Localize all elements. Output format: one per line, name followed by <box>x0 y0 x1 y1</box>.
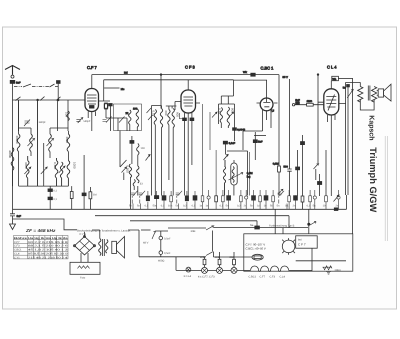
coil L5 <box>55 158 58 186</box>
wire tube U1 top cap <box>91 75 93 89</box>
capacitor cluster mid <box>203 104 250 209</box>
svg-text:Steckerbelegung für Tonabnehme: Steckerbelegung für Tonabnehmer u. Lauts… <box>77 229 131 232</box>
BOTTOM <box>14 209 353 279</box>
svg-text:C.L4: C.L4 <box>14 253 20 256</box>
tube U1 C.F7 <box>85 89 99 112</box>
svg-text:C.F7: C.F7 <box>260 275 266 278</box>
tube U2 base bracket <box>179 113 184 119</box>
svg-text:3600: 3600 <box>24 162 28 169</box>
svg-text:C L 4: C L 4 <box>327 64 337 69</box>
svg-text:90 2,2 6 215 95 3 8: 90 2,2 6 215 95 3 8 <box>28 241 69 244</box>
svg-text:10n: 10n <box>168 205 173 208</box>
svg-text:45 1,8 2 105 40 1 3: 45 1,8 2 105 40 1 3 <box>28 249 69 252</box>
wire mains row <box>168 227 206 229</box>
wire <box>360 100 374 111</box>
svg-text:4 x C,F7, C.F3: 4 x C,F7, C.F3 <box>198 275 215 278</box>
svg-text:ZF = 468 kHz: ZF = 468 kHz <box>25 228 57 233</box>
svg-text:log: log <box>247 176 251 179</box>
svg-text:0,30: 0,30 <box>217 108 221 114</box>
ground <box>10 224 16 230</box>
wire tube U3 top <box>221 80 266 98</box>
motor box <box>70 262 100 274</box>
bus y219 left <box>13 219 78 230</box>
resistor 0,3M <box>278 166 281 172</box>
wire dash-dot top <box>14 86 58 88</box>
bracket block x110-127 <box>106 118 127 131</box>
switch <box>122 167 127 173</box>
wire <box>71 186 73 209</box>
switch S2 <box>50 84 55 87</box>
wire grid bus yB <box>104 79 234 81</box>
tube U1 pins down <box>88 112 95 132</box>
antenna terminal <box>11 75 14 78</box>
IF transformer T1 bracket <box>19 100 69 134</box>
capacitor 50uF on bus <box>251 73 255 76</box>
svg-text:Md: Md <box>124 71 128 74</box>
svg-text:0,1: 0,1 <box>257 205 261 208</box>
svg-text:C.BC1: C.BC1 <box>249 275 257 278</box>
wire x318 <box>317 75 319 163</box>
svg-text:0,5nF: 0,5nF <box>164 237 171 240</box>
svg-text:0,1: 0,1 <box>145 205 149 208</box>
resistor to ground right <box>323 266 333 274</box>
wire <box>377 91 379 96</box>
wires T4 <box>221 96 234 141</box>
tone coil block <box>130 141 134 144</box>
wire <box>347 87 349 195</box>
wire <box>84 232 86 237</box>
svg-text:bei: bei <box>298 239 302 242</box>
svg-text:C.Y1: C.Y1 <box>14 256 20 259</box>
svg-text:100: 100 <box>133 108 138 111</box>
svg-text:Röhre: Röhre <box>14 237 28 240</box>
svg-text:C.L4: C.L4 <box>280 275 286 278</box>
capacitor blob <box>296 167 300 170</box>
resistor diag <box>147 108 153 120</box>
heater humps <box>251 266 289 271</box>
valve table <box>14 236 69 259</box>
coil L1c <box>49 134 52 152</box>
MIDFIELD <box>8 74 353 234</box>
tube U4 C.L4 <box>324 89 339 115</box>
capacitor 0,0048 <box>233 128 237 131</box>
svg-text:88 2,1 5 210 90 2 6: 88 2,1 5 210 90 2 6 <box>28 245 69 248</box>
wire grid row y=100 <box>13 99 86 101</box>
pot arrow <box>334 195 340 202</box>
switch <box>224 144 248 196</box>
wire <box>57 100 59 131</box>
switch S4 <box>40 97 45 101</box>
capacitor 5nF a <box>159 236 163 240</box>
svg-text:5nF: 5nF <box>258 141 263 144</box>
volume pot <box>223 160 225 196</box>
coil L6 <box>60 162 63 186</box>
vertical <box>212 231 214 252</box>
osc coil a <box>129 110 131 124</box>
coil L8 <box>67 111 70 121</box>
bus y215.7 <box>95 215 289 217</box>
svg-text:215 46 21 218 50 2 4: 215 46 21 218 50 2 4 <box>28 256 68 259</box>
switch mains a <box>206 226 214 230</box>
svg-text:C.F7: C.F7 <box>14 241 20 244</box>
output transformer T-out <box>358 87 363 103</box>
wire tube U2 top <box>187 80 189 90</box>
svg-text:Ua Ug Ik Ua Ug Ik 2a: Ua Ug Ik Ua Ug Ik 2a <box>28 237 68 240</box>
tube U3 pins <box>263 110 272 131</box>
svg-text:0,1: 0,1 <box>53 190 57 193</box>
wire plate to transformer <box>339 82 361 195</box>
coil <box>220 108 222 123</box>
svg-text:40Ω: 40Ω <box>200 256 205 259</box>
lamp 2 <box>217 267 223 273</box>
svg-text:3 C.L4: 3 C.L4 <box>184 275 192 278</box>
trimmer 140pF b <box>76 118 82 124</box>
main bus y209 <box>13 208 347 210</box>
switch gamma <box>146 155 151 161</box>
tube U3 C.BC1 <box>260 98 273 111</box>
wire <box>49 186 51 209</box>
capacitor 0,1uF <box>223 141 227 144</box>
svg-text:600: 600 <box>175 112 179 117</box>
switch S3 <box>16 97 21 101</box>
extra speaker <box>112 241 117 253</box>
wires below upper coils <box>19 152 69 161</box>
wire tube stubs <box>175 102 324 111</box>
svg-text:40Ω: 40Ω <box>215 256 220 259</box>
cluster labels <box>129 205 203 208</box>
inner page edge lines right <box>384 136 386 241</box>
svg-text:C.BC1: C.BC1 <box>14 249 22 252</box>
capacitor blob <box>301 142 305 145</box>
svg-text:C.F3: C.F3 <box>270 275 276 278</box>
svg-text:C F 7: C F 7 <box>298 243 306 247</box>
svg-text:0,2: 0,2 <box>237 205 241 208</box>
wire <box>295 104 324 106</box>
antenna <box>5 66 20 75</box>
capacitor 5nF b <box>159 251 163 255</box>
switch S5 <box>56 97 61 101</box>
svg-text:Funkentstörung Typ B: Funkentstörung Typ B <box>269 224 295 227</box>
switch block wires <box>128 230 152 257</box>
svg-text:500: 500 <box>284 166 289 169</box>
svg-text:0,1uF: 0,1uF <box>229 142 236 145</box>
trimmer T4 left <box>212 112 217 118</box>
trimmer diag <box>347 89 353 98</box>
coil pair 2 <box>168 110 170 125</box>
svg-text:C.BC1: 40–50 V: C.BC1: 40–50 V <box>246 247 266 251</box>
svg-text:0,1: 0,1 <box>192 205 196 208</box>
svg-text:400Ω: 400Ω <box>158 260 164 263</box>
capacitor 50pF <box>57 81 61 84</box>
wire <box>175 257 177 271</box>
fuse <box>252 254 263 260</box>
svg-text:0,5nF: 0,5nF <box>164 252 171 255</box>
resistor 1M horizontal <box>307 103 314 106</box>
wire <box>256 221 258 227</box>
wire x353 <box>352 79 354 234</box>
coil <box>227 107 229 126</box>
svg-text:C.F3: C.F3 <box>14 245 20 248</box>
heater line <box>176 269 202 271</box>
capacitor blob on bus <box>334 208 338 211</box>
bus y220.8 <box>130 220 257 222</box>
resistor R <box>70 192 73 199</box>
wire <box>254 135 266 137</box>
power unit rectangle <box>244 234 353 271</box>
svg-text:100: 100 <box>141 147 146 150</box>
svg-text:6nF: 6nF <box>17 215 22 218</box>
wire lamps <box>208 269 251 271</box>
wire x326 <box>325 150 327 196</box>
svg-text:3000: 3000 <box>65 137 69 144</box>
svg-text:0,3M: 0,3M <box>273 163 279 166</box>
capacitor 5nF <box>296 102 300 105</box>
tube U2 C.F3 <box>181 90 196 113</box>
svg-text:1000: 1000 <box>73 162 77 169</box>
wire x37.6 <box>37 100 39 186</box>
svg-text:140pF: 140pF <box>83 120 91 123</box>
svg-text:0,1: 0,1 <box>53 198 57 201</box>
IF transformer T4 <box>219 104 235 124</box>
wire <box>18 100 20 131</box>
lamp 1 <box>202 267 208 273</box>
capacitor 500pF <box>287 79 291 196</box>
svg-text:1M: 1M <box>93 194 97 197</box>
switch tone <box>314 164 319 170</box>
resistor above lamp1 <box>203 259 206 264</box>
svg-text:5nF: 5nF <box>295 99 300 102</box>
capacitor 6nF to ground <box>10 209 15 224</box>
oscillator block G1 <box>114 104 142 131</box>
svg-text:Foto: Foto <box>80 276 86 279</box>
osc coil b <box>136 109 138 127</box>
svg-text:C.BC 1: C.BC 1 <box>261 66 275 71</box>
svg-text:30Ω: 30Ω <box>191 230 196 233</box>
voltages text <box>246 242 266 250</box>
wire <box>346 195 348 209</box>
wire <box>214 227 309 229</box>
svg-text:1MΩ: 1MΩ <box>307 100 313 103</box>
wire antenna down <box>12 83 14 209</box>
wire <box>288 216 290 228</box>
antenna coil L2 <box>11 148 14 171</box>
svg-text:Triumph G/GW: Triumph G/GW <box>368 147 378 212</box>
svg-text:6nF: 6nF <box>16 82 21 85</box>
wire <box>103 80 105 100</box>
trimmer <box>59 166 65 173</box>
svg-text:140pF: 140pF <box>39 121 47 124</box>
svg-text:0,1: 0,1 <box>161 205 165 208</box>
wire x302 <box>302 145 304 196</box>
wire x43.7 <box>43 143 45 186</box>
svg-text:Kapsch: Kapsch <box>368 115 376 140</box>
wire <box>152 231 176 257</box>
svg-text:C F 3: C F 3 <box>185 64 196 69</box>
inner horizontal <box>296 260 346 262</box>
coil L7 <box>67 161 70 187</box>
trimmer <box>41 167 47 174</box>
capacitor blob <box>253 140 257 143</box>
svg-text:0,500: 0,500 <box>126 166 130 174</box>
svg-text:80Ω: 80Ω <box>230 256 235 259</box>
svg-text:0,2: 0,2 <box>183 205 187 208</box>
cluster labels right <box>250 205 339 208</box>
switch M <box>152 231 156 239</box>
switch mains b <box>206 251 214 255</box>
wire <box>67 100 69 131</box>
osc trimmers <box>103 117 112 123</box>
svg-text:0,1: 0,1 <box>307 205 311 208</box>
coil <box>154 110 156 125</box>
wire <box>243 131 263 150</box>
capacitor blob <box>82 193 86 196</box>
resistor <box>301 196 304 202</box>
svg-text:0,1: 0,1 <box>220 205 224 208</box>
capacitor 6nF antenna <box>10 80 15 83</box>
wire <box>338 78 353 80</box>
capacitor Na <box>255 226 260 229</box>
junction caps <box>48 189 52 192</box>
svg-text:C.F 7: C.F 7 <box>87 65 98 70</box>
component cluster right <box>252 190 341 209</box>
svg-text:50u: 50u <box>153 205 158 208</box>
tube U2 pins <box>185 113 192 196</box>
wire Mc stub <box>104 87 119 89</box>
capacitor blob CL4 <box>347 85 350 87</box>
svg-text:0,1: 0,1 <box>285 205 289 208</box>
coil L1d <box>67 134 70 152</box>
wire row y186 <box>13 161 69 187</box>
svg-text:Wh: Wh <box>332 78 336 81</box>
wire <box>92 230 100 239</box>
wire tube U4 top <box>330 81 332 89</box>
tube U4 pins <box>328 115 336 196</box>
trimmer T4 right <box>229 112 234 118</box>
resistor 0,3M mid <box>215 196 218 202</box>
switch diag <box>278 189 283 194</box>
component cluster left <box>131 150 204 209</box>
loudspeaker <box>378 89 383 97</box>
capacitor blob <box>318 182 322 185</box>
phono terminal <box>292 104 294 106</box>
svg-text:30000: 30000 <box>15 136 19 144</box>
trimmer <box>24 167 30 174</box>
coil L1a <box>17 134 20 152</box>
wire <box>37 100 39 187</box>
svg-text:28kΩ: 28kΩ <box>335 269 341 272</box>
svg-text:0,100: 0,100 <box>53 162 57 170</box>
IF transformer T3 <box>152 106 162 196</box>
coil L1b <box>30 134 33 152</box>
extra speaker transformer <box>99 239 101 256</box>
svg-text:Na: Na <box>250 224 254 227</box>
svg-text:48 V: 48 V <box>143 242 149 245</box>
svg-text:95 8,5 36 205 92 30 9: 95 8,5 36 205 92 30 9 <box>28 253 68 256</box>
svg-text:100: 100 <box>65 112 69 117</box>
components right of U1 <box>99 100 111 102</box>
inner verticals <box>275 209 312 271</box>
wire long vertical <box>160 75 162 109</box>
wires under osc <box>120 124 137 167</box>
wires diamond to box <box>81 253 88 262</box>
trimmer 140pF <box>24 120 30 127</box>
selector disc <box>282 240 295 253</box>
node dots <box>37 99 39 101</box>
resistor 1M <box>89 192 92 199</box>
wire <box>57 83 59 100</box>
pickup diamond <box>75 237 95 255</box>
trimmer <box>28 138 35 146</box>
wire <box>233 160 235 196</box>
mains dot <box>308 223 310 225</box>
svg-text:50 V: 50 V <box>283 76 289 79</box>
lamp 4 <box>186 267 191 272</box>
coil <box>160 109 162 128</box>
trimmer <box>47 138 54 146</box>
box Wh <box>332 76 339 80</box>
coil L4a <box>26 156 29 186</box>
lamp 3 <box>231 267 237 273</box>
switch S1 <box>23 84 31 87</box>
bei CF7 box <box>296 236 318 248</box>
wire plate bus yA <box>92 74 279 76</box>
svg-text:40000: 40000 <box>8 150 12 158</box>
wires T3 down <box>155 125 161 196</box>
